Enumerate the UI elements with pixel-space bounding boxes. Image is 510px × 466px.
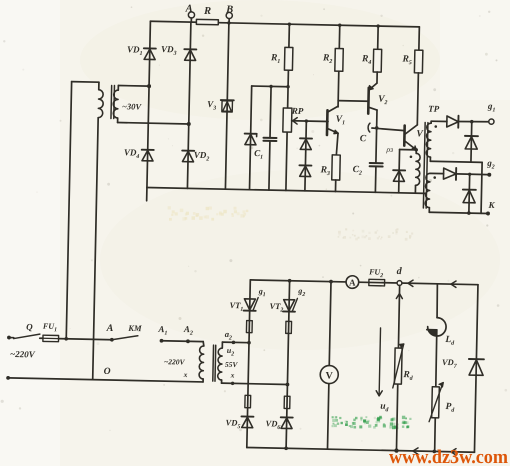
svg-text:V: V <box>325 371 333 382</box>
svg-text:www.dz3w.com: www.dz3w.com <box>389 447 508 466</box>
svg-text:KM: KM <box>127 323 142 333</box>
svg-text:V: V <box>416 129 423 139</box>
svg-text:~220V: ~220V <box>164 357 186 366</box>
svg-text:K: K <box>488 200 496 210</box>
svg-text:TP: TP <box>428 104 440 114</box>
svg-text:x: x <box>230 371 235 380</box>
svg-text:A: A <box>349 277 356 287</box>
svg-text:Q: Q <box>26 322 33 332</box>
svg-text:A: A <box>106 323 114 334</box>
svg-text:O: O <box>104 367 111 377</box>
svg-text:A: A <box>185 3 193 14</box>
svg-text:R: R <box>203 6 211 17</box>
svg-text:~30V: ~30V <box>122 101 143 111</box>
svg-text:B: B <box>225 4 233 15</box>
svg-text:ρɜ: ρɜ <box>385 145 393 154</box>
svg-text:C: C <box>360 134 367 144</box>
svg-text:x: x <box>183 370 188 379</box>
svg-text:55V: 55V <box>225 360 239 369</box>
svg-text:~220V: ~220V <box>10 349 36 360</box>
svg-text:RP: RP <box>291 106 304 116</box>
